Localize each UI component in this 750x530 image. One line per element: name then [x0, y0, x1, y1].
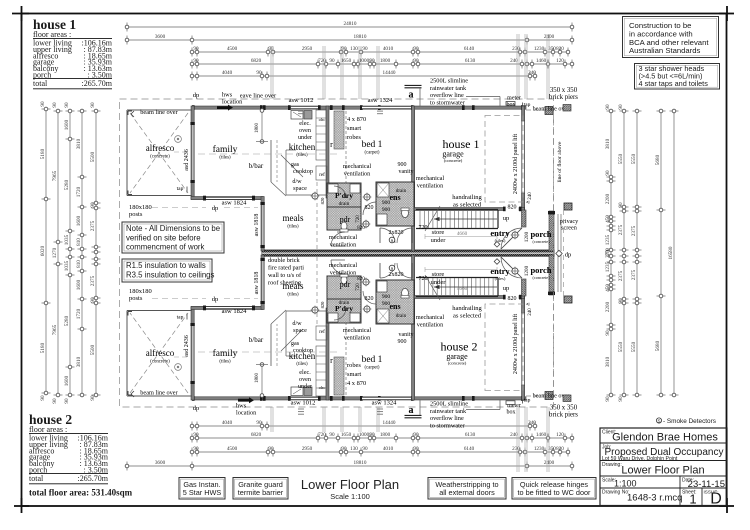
svg-text:termite barrier: termite barrier: [238, 488, 284, 497]
svg-text:1460: 1460: [536, 58, 547, 64]
svg-text:store: store: [432, 229, 445, 236]
svg-text:Drawing No:: Drawing No:: [602, 490, 630, 496]
svg-text:90: 90: [605, 330, 611, 336]
svg-text:6130: 6130: [465, 58, 476, 64]
svg-text:5500: 5500: [90, 151, 96, 162]
svg-text:1800: 1800: [380, 58, 391, 64]
svg-text:900: 900: [398, 339, 407, 345]
svg-text:roof sheeting: roof sheeting: [268, 280, 302, 287]
svg-text:5680: 5680: [655, 340, 661, 351]
stair break line: [425, 206, 440, 231]
svg-text:450: 450: [605, 284, 611, 292]
svg-text:1800: 1800: [255, 123, 260, 134]
svg-text:bed 1: bed 1: [362, 355, 383, 365]
svg-text:asw 1824: asw 1824: [222, 200, 247, 207]
svg-text:(concrete): (concrete): [150, 360, 170, 365]
svg-text:720: 720: [419, 276, 428, 282]
svg-text:asw 1324: asw 1324: [372, 400, 397, 407]
svg-text:4040: 4040: [222, 70, 233, 76]
breakfast bar: [270, 140, 272, 182]
svg-text:90: 90: [618, 298, 624, 304]
svg-text:alfresco: alfresco: [146, 348, 175, 358]
svg-text:820: 820: [320, 197, 325, 205]
svg-text:robes: robes: [347, 134, 361, 141]
svg-text:90: 90: [64, 398, 70, 404]
svg-text:posts: posts: [129, 211, 143, 218]
svg-text:rainwater tank: rainwater tank: [430, 85, 467, 92]
svg-text:Glendon Brae Homes: Glendon Brae Homes: [612, 432, 718, 444]
bed1 robes: [334, 111, 344, 149]
pdr door arc: [331, 232, 345, 246]
window asw1324 on north wall: [362, 106, 411, 109]
wall projection lines top: [270, 46, 272, 99]
svg-text:810: 810: [76, 260, 82, 268]
stair direction arrow: [434, 218, 497, 220]
svg-text:ventilation: ventilation: [330, 242, 356, 249]
svg-text:16580: 16580: [668, 246, 674, 259]
svg-text:90: 90: [329, 432, 335, 438]
ensuite room: [376, 182, 414, 226]
svg-text:wall to u/s of: wall to u/s of: [268, 272, 302, 279]
svg-text:90: 90: [413, 432, 419, 438]
svg-text:oven: oven: [299, 376, 311, 383]
svg-text:1: 1: [689, 492, 696, 507]
svg-text:3600: 3600: [155, 34, 166, 40]
svg-text:1230: 1230: [534, 46, 545, 52]
svg-text:family: family: [213, 348, 238, 359]
double door 2x820 arcs: [380, 228, 395, 243]
wall exterior north: [192, 106, 526, 109]
svg-text:r: r: [330, 140, 333, 149]
svg-text:R1.5 insulation to walls: R1.5 insulation to walls: [126, 261, 206, 270]
svg-text:4 star taps and toilets: 4 star taps and toilets: [639, 79, 709, 88]
svg-text:to be fitted to WC door: to be fitted to WC door: [517, 488, 591, 497]
svg-text:3810: 3810: [605, 138, 611, 149]
svg-text:14440: 14440: [383, 70, 396, 76]
svg-text:porch: porch: [530, 265, 551, 275]
dimension column right 5: [673, 111, 675, 395]
pdr wc: [341, 222, 347, 230]
svg-text:mechanical: mechanical: [343, 327, 371, 334]
svg-text:900: 900: [398, 162, 407, 168]
svg-text:asd 2436: asd 2436: [184, 335, 190, 357]
line of floor above dashed verticals: [553, 110, 555, 211]
svg-text:90: 90: [90, 102, 96, 108]
svg-text:900: 900: [382, 294, 391, 300]
svg-text:ohc: ohc: [319, 117, 326, 122]
house 1 floor areas table: [33, 17, 113, 89]
svg-text:b/bar: b/bar: [249, 162, 264, 170]
svg-text:as selected: as selected: [453, 202, 482, 209]
svg-text:6020: 6020: [40, 245, 46, 256]
svg-text:5180: 5180: [40, 342, 46, 353]
svg-text:1035: 1035: [64, 260, 70, 271]
dimension column left B: [57, 111, 59, 395]
svg-text:90: 90: [193, 432, 199, 438]
svg-text:(tiles): (tiles): [495, 276, 506, 281]
wall garage east: [522, 106, 525, 121]
dimension column left A: [45, 109, 47, 393]
dp dashed line right: [563, 210, 565, 296]
alfresco outline: [127, 109, 192, 111]
svg-text:ens: ens: [389, 302, 400, 311]
svg-text:alfresco: alfresco: [146, 143, 175, 153]
svg-text:dp: dp: [565, 252, 572, 259]
svg-text:gas: gas: [291, 340, 300, 347]
svg-text:1235: 1235: [605, 234, 611, 245]
svg-text:900: 900: [382, 301, 391, 307]
svg-text:location: location: [236, 410, 257, 417]
svg-text:all external doors: all external doors: [439, 488, 495, 497]
svg-text:1600: 1600: [64, 119, 70, 130]
svg-text:total: total: [29, 474, 44, 483]
kitchen fridge space: [316, 166, 327, 180]
svg-text:(tiles): (tiles): [219, 360, 231, 365]
dimension row top 4500 2950 4010 6140: [192, 51, 568, 53]
dimension column right 2: [623, 111, 625, 395]
svg-text:commencment of work: commencment of work: [126, 243, 205, 252]
svg-text:1720: 1720: [76, 308, 82, 319]
dimension column right 1: [610, 111, 612, 395]
construction note box: [623, 17, 719, 58]
svg-text:asw 1324: asw 1324: [368, 97, 393, 104]
svg-text:a: a: [409, 90, 414, 101]
svg-text:4660: 4660: [457, 231, 468, 237]
svg-text:(carpet): (carpet): [365, 151, 380, 156]
beam line over dashed top right: [526, 109, 553, 111]
dimension column right 4: [660, 111, 662, 395]
svg-text:90: 90: [413, 58, 419, 64]
svg-text:23-11-15: 23-11-15: [688, 479, 725, 490]
staircase: [416, 209, 498, 211]
dp diamonds at entries: [494, 242, 500, 248]
svg-text:90: 90: [256, 420, 262, 426]
svg-text:under: under: [431, 237, 447, 244]
svg-text:smart: smart: [347, 125, 361, 132]
svg-text:(tiles): (tiles): [287, 225, 299, 230]
svg-text:Note - All Dimensions to be: Note - All Dimensions to be: [126, 224, 220, 233]
svg-text:120: 120: [556, 58, 564, 64]
svg-text:space: space: [293, 327, 307, 334]
alfresco diagonal braces: [130, 113, 188, 193]
svg-text:drain: drain: [339, 300, 350, 306]
svg-text:dp: dp: [212, 296, 219, 303]
svg-text:1800: 1800: [380, 432, 391, 438]
svg-text:ref: ref: [319, 330, 325, 335]
svg-text:5180: 5180: [40, 148, 46, 159]
svg-text:5550: 5550: [631, 341, 637, 352]
svg-text:box: box: [507, 410, 516, 416]
svg-text:90: 90: [40, 101, 46, 107]
svg-text:90: 90: [605, 170, 611, 176]
svg-text:(tiles): (tiles): [219, 156, 231, 161]
svg-text:1600: 1600: [76, 215, 82, 226]
dimension row top 4040 14440: [192, 75, 535, 77]
svg-text:90: 90: [329, 58, 335, 64]
svg-text:2500L slimline: 2500L slimline: [430, 401, 468, 408]
svg-text:1230: 1230: [534, 446, 545, 452]
dimension row bottom 4500 2950 4010 6140: [192, 451, 568, 453]
balcony pier squares right: [564, 203, 572, 210]
svg-text:2375: 2375: [618, 270, 624, 281]
svg-text:meter: meter: [507, 403, 521, 409]
svg-text:mechanical: mechanical: [329, 234, 357, 241]
svg-text:90: 90: [64, 102, 70, 108]
svg-text:d/w: d/w: [292, 320, 302, 327]
svg-text::265.70m: :265.70m: [78, 474, 109, 483]
house 2 mirrored line work: [127, 255, 561, 401]
wall bed1-garage: [412, 106, 415, 251]
svg-text:- Smoke Detectors: - Smoke Detectors: [663, 418, 716, 425]
svg-text:240: 240: [528, 420, 536, 426]
svg-text:mechanical: mechanical: [416, 314, 444, 321]
svg-text:oven: oven: [299, 127, 311, 134]
svg-text:dp: dp: [212, 205, 219, 212]
svg-text::265.70m: :265.70m: [82, 79, 113, 88]
svg-text:2375: 2375: [631, 225, 637, 236]
quick release hinges note box: [512, 478, 596, 500]
svg-text:bed 1: bed 1: [362, 140, 383, 150]
svg-text:90: 90: [362, 46, 368, 52]
svg-text:brick piers: brick piers: [549, 94, 578, 101]
svg-text:90: 90: [341, 446, 347, 452]
dimension row top 6820 6130: [192, 63, 572, 65]
svg-text:2950: 2950: [302, 46, 313, 52]
svg-text:total: total: [33, 79, 48, 88]
svg-text:up: up: [503, 215, 510, 222]
svg-text:verified on site before: verified on site before: [126, 233, 201, 242]
svg-text:6140: 6140: [464, 446, 475, 452]
svg-text:(concrete): (concrete): [533, 239, 551, 244]
svg-text:240: 240: [528, 70, 536, 76]
svg-text:4010: 4010: [383, 46, 394, 52]
svg-text:1600: 1600: [76, 279, 82, 290]
svg-text:Drawing:: Drawing:: [602, 462, 622, 468]
wall meals west: [261, 197, 264, 252]
svg-text:90: 90: [52, 102, 58, 108]
wall projection lines bottom: [270, 407, 272, 432]
svg-text:5680: 5680: [655, 154, 661, 165]
svg-text:90: 90: [618, 202, 624, 208]
svg-text:90: 90: [193, 446, 199, 452]
svg-text:porch: porch: [530, 229, 551, 239]
svg-text:4 x 870: 4 x 870: [347, 116, 366, 123]
svg-text:1720: 1720: [76, 186, 82, 197]
wall kitchen east: [326, 106, 329, 198]
svg-text:180x180: 180x180: [129, 204, 152, 211]
svg-text:820: 820: [320, 301, 325, 309]
svg-text:line of floor above: line of floor above: [556, 141, 563, 182]
svg-text:asw 1818: asw 1818: [254, 214, 260, 237]
svg-text:elec.: elec.: [299, 120, 311, 127]
svg-text:smart: smart: [347, 371, 361, 378]
family room centerline: [198, 153, 338, 155]
svg-text:820: 820: [556, 46, 564, 52]
svg-text:1200: 1200: [524, 265, 530, 276]
svg-text:(tiles): (tiles): [296, 362, 308, 367]
svg-text:1648-3 r.mcq: 1648-3 r.mcq: [627, 493, 682, 504]
svg-text:4010: 4010: [383, 446, 394, 452]
svg-text:to stormwater: to stormwater: [430, 99, 466, 106]
svg-text:(concrete): (concrete): [448, 361, 467, 366]
svg-text:2375: 2375: [618, 224, 624, 235]
svg-text:3810: 3810: [605, 356, 611, 367]
svg-text:under: under: [298, 134, 312, 141]
dimension column left: [95, 111, 97, 395]
svg-text:2x820: 2x820: [389, 272, 404, 278]
svg-text:store: store: [432, 271, 445, 278]
svg-text:5280: 5280: [64, 315, 70, 326]
svg-text:90: 90: [618, 396, 624, 402]
plumbing dashed line: [316, 182, 318, 250]
svg-text:(tiles): (tiles): [296, 153, 308, 158]
weatherstripping note box: [428, 478, 506, 500]
house 2 floor areas table: [29, 412, 133, 498]
svg-text:90: 90: [618, 104, 624, 110]
svg-text:2200: 2200: [605, 193, 611, 204]
svg-text:90: 90: [369, 58, 375, 64]
svg-text:90: 90: [268, 446, 274, 452]
svg-text:cooktop: cooktop: [293, 347, 313, 354]
svg-text:90: 90: [90, 297, 96, 303]
svg-text:elec.: elec.: [299, 369, 311, 376]
svg-text:aj: aj: [526, 199, 529, 204]
svg-text:fire rated parti: fire rated parti: [268, 265, 304, 272]
svg-text:7965: 7965: [52, 170, 58, 181]
note all dimensions box: [122, 222, 224, 253]
svg-text:720: 720: [419, 225, 428, 231]
wall entry east: [522, 210, 527, 227]
smoke detector symbols: [389, 237, 395, 243]
svg-text:820: 820: [556, 446, 564, 452]
svg-text:2500L slimline: 2500L slimline: [430, 78, 468, 85]
svg-text:D: D: [710, 491, 722, 508]
svg-text:(tiles): (tiles): [287, 293, 299, 298]
corner brick pier northeast: [545, 107, 553, 115]
dimension column right 3: [636, 111, 638, 395]
svg-text:ohc: ohc: [319, 385, 326, 390]
svg-text:1000: 1000: [359, 432, 370, 438]
sill height marks: [298, 108, 304, 110]
wall garage south: [412, 208, 504, 211]
svg-text:P'dry: P'dry: [335, 191, 353, 200]
svg-text:ventilation: ventilation: [417, 322, 443, 329]
ensuite wc: [402, 208, 409, 217]
svg-text:overflow line: overflow line: [430, 415, 464, 422]
svg-text:space: space: [293, 185, 307, 192]
svg-text:810: 810: [76, 238, 82, 246]
svg-text:r: r: [330, 356, 333, 365]
svg-text:1460: 1460: [536, 432, 547, 438]
svg-text:Scale 1:100: Scale 1:100: [330, 492, 370, 501]
svg-text:720: 720: [318, 432, 326, 438]
svg-text:90: 90: [413, 46, 419, 52]
svg-text:beam line over: beam line over: [140, 109, 178, 116]
dimension column left D: [81, 111, 83, 395]
svg-text:pdr: pdr: [340, 280, 351, 289]
svg-text:1270: 1270: [52, 247, 58, 258]
meals side marks: [337, 231, 344, 233]
svg-text:ventilation: ventilation: [344, 335, 370, 342]
svg-text:family: family: [213, 144, 238, 155]
granite guard note box: [233, 478, 288, 500]
svg-text:vanity: vanity: [399, 169, 414, 175]
svg-text:brick piers: brick piers: [549, 412, 578, 419]
svg-text:mechanical: mechanical: [416, 175, 444, 182]
svg-text:ref: ref: [319, 173, 325, 178]
svg-text:820: 820: [508, 296, 517, 302]
svg-text:4500: 4500: [227, 46, 238, 52]
garage line of floor above dashed: [485, 116, 523, 203]
svg-text:cooktop: cooktop: [293, 168, 313, 175]
svg-text:90: 90: [193, 58, 199, 64]
dimension row bottom 3600 18810 2400: [127, 465, 572, 467]
svg-text:S: S: [657, 419, 660, 424]
svg-text:pdr: pdr: [340, 215, 351, 224]
svg-text:6140: 6140: [464, 46, 475, 52]
eave line dashed outline: [120, 99, 554, 407]
dp labels inner: [152, 207, 206, 209]
svg-text:180x180: 180x180: [129, 288, 152, 295]
wall family south: [191, 197, 263, 200]
svg-text:beam line over: beam line over: [140, 389, 178, 396]
svg-text:posts: posts: [129, 295, 143, 302]
svg-text:mechanical: mechanical: [343, 163, 371, 170]
svg-text:6130: 6130: [465, 432, 476, 438]
svg-text:tap: tap: [524, 102, 531, 108]
svg-text:5550: 5550: [618, 153, 624, 164]
svg-text:meals: meals: [283, 213, 304, 223]
svg-text:to stormwater: to stormwater: [430, 422, 466, 429]
porch pier east: [549, 211, 554, 251]
svg-text:90: 90: [362, 446, 368, 452]
svg-text:90: 90: [605, 396, 611, 402]
svg-text:5 Star HWS: 5 Star HWS: [183, 488, 222, 497]
svg-text:drain: drain: [396, 189, 407, 194]
svg-text:aj: aj: [526, 301, 529, 306]
svg-text:vanity: vanity: [399, 332, 414, 338]
svg-text:asd 2436: asd 2436: [184, 149, 190, 171]
svg-text:4040: 4040: [222, 420, 233, 426]
svg-text:drain: drain: [339, 201, 350, 207]
dimension row top 24810: [127, 26, 572, 28]
svg-text:270: 270: [605, 250, 611, 258]
svg-text:1:100: 1:100: [614, 479, 637, 489]
dimension row bottom 6820 6130: [192, 437, 572, 439]
svg-text:ens: ens: [389, 193, 400, 202]
svg-text:90: 90: [256, 70, 262, 76]
svg-text:tap: tap: [177, 186, 184, 192]
svg-text:5500: 5500: [90, 344, 96, 355]
svg-text:90: 90: [90, 395, 96, 401]
svg-text:4660: 4660: [457, 286, 468, 292]
svg-text:90: 90: [193, 46, 199, 52]
svg-text:rainwater tank: rainwater tank: [430, 408, 467, 415]
svg-text:entry: entry: [490, 266, 510, 276]
svg-text:720: 720: [356, 283, 361, 291]
dimension row top 3600 18810 2400: [127, 39, 572, 41]
svg-text:350 x 350: 350 x 350: [550, 87, 578, 94]
svg-text:ventilation: ventilation: [344, 171, 370, 178]
svg-text:3810: 3810: [76, 138, 82, 149]
svg-text:5550: 5550: [618, 341, 624, 352]
svg-text:entry: entry: [490, 228, 510, 238]
svg-text:meter: meter: [507, 96, 521, 102]
ens door arc: [363, 202, 376, 215]
svg-text:mechanical: mechanical: [329, 262, 357, 269]
svg-text:6820: 6820: [251, 432, 262, 438]
svg-text:under: under: [431, 279, 447, 286]
